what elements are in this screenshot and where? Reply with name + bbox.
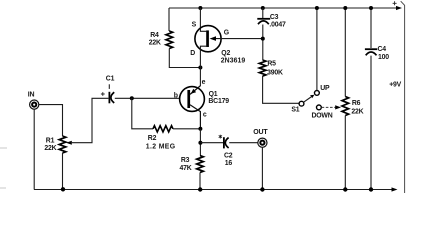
wire R2 to collector line (173, 128, 200, 130)
svg-text:2N3619: 2N3619 (221, 58, 246, 65)
capacitor C1 (101, 76, 115, 104)
svg-text:IN: IN (28, 92, 35, 99)
wire R6 line from top rail (344, 8, 346, 97)
svg-text:Q1: Q1 (209, 91, 218, 98)
wire UP contact to top rail (316, 8, 318, 91)
wire C1 to Q1 base (115, 97, 180, 99)
svg-text:e: e (202, 79, 206, 86)
svg-text:C4: C4 (378, 46, 387, 53)
node C4/bottom rail junction (369, 187, 373, 191)
transistor Q2 (JFET 2N3619) (190, 21, 263, 67)
svg-text:R6: R6 (352, 100, 361, 107)
wire C2 tap to capacitor (200, 142, 223, 144)
svg-text:C2: C2 (224, 153, 233, 160)
wire R1 wiper to C1 (66, 98, 108, 144)
node R4/drain junction (198, 66, 202, 70)
svg-text:+9V: +9V (389, 82, 401, 89)
node C3 junction on top rail (261, 6, 265, 10)
svg-text:1.2 MEG: 1.2 MEG (146, 143, 176, 150)
svg-text:G: G (224, 30, 229, 37)
resistor R4 (149, 31, 173, 49)
svg-text:DOWN: DOWN (312, 112, 333, 119)
node +9V top plus (393, 1, 397, 5)
svg-text:390K: 390K (267, 70, 283, 77)
svg-text:R3: R3 (181, 157, 190, 164)
svg-text:BC179: BC179 (208, 98, 229, 105)
svg-text:100: 100 (378, 54, 389, 61)
node R2/collector junction (198, 127, 202, 131)
svg-text:OUT: OUT (253, 129, 268, 136)
node C4/top rail junction (369, 6, 373, 10)
resistor R5 (259, 60, 283, 77)
svg-text:R5: R5 (267, 61, 276, 68)
wire IN to R1 top (39, 105, 63, 136)
wire bottom rail (34, 187, 398, 191)
svg-text:22K: 22K (351, 109, 363, 116)
node R3/rail junction (198, 187, 202, 191)
svg-text:R4: R4 (150, 32, 159, 39)
node C2 tap junction (198, 141, 202, 145)
wire IN to ground rail (33, 109, 35, 189)
wire C2 to OUT (229, 142, 257, 144)
wire rail to C3 (262, 8, 264, 18)
resistor R3 (180, 156, 204, 173)
wire C4 line from top rail (370, 8, 372, 48)
wire R1 bottom to rail (62, 153, 64, 190)
node R6/top rail junction (343, 6, 347, 10)
svg-text:S1: S1 (291, 107, 299, 114)
svg-text:Q2: Q2 (221, 50, 230, 57)
wire collector line down (199, 129, 201, 156)
wire top rail to Q2 source (200, 8, 206, 31)
resistor R1 (44, 136, 65, 153)
wire top rail corner to R4 (168, 8, 170, 31)
resistor R6 (342, 97, 364, 116)
svg-text:22K: 22K (44, 145, 56, 152)
wire R3 to rail (199, 173, 201, 190)
wire scan speck bottom left (0, 148, 7, 188)
node R1/rail junction (61, 187, 65, 191)
svg-text:.0047: .0047 (269, 22, 286, 29)
svg-text:D: D (190, 50, 195, 57)
transistor Q1 (BC179) (174, 79, 229, 129)
wire R5 to switch common (263, 76, 299, 103)
capacitor C4 (365, 46, 389, 61)
svg-text:S: S (192, 21, 197, 28)
svg-text:b: b (174, 92, 178, 99)
wire C3 to gate node (262, 25, 264, 61)
wire Q2 drain down to Q1 emitter (199, 68, 201, 87)
wire DOWN contact to R6 wiper (322, 105, 341, 109)
terminal OUT (253, 129, 268, 147)
node OUT/rail junction (260, 187, 264, 191)
svg-text:22K: 22K (149, 40, 161, 47)
svg-text:c: c (203, 112, 207, 119)
wire R4 bottom to drain line (169, 49, 200, 68)
wire R6 to bottom rail (344, 116, 346, 190)
node R6/bottom rail junction (343, 187, 347, 191)
capacitor C2 (219, 135, 233, 168)
svg-text:16: 16 (225, 160, 233, 167)
svg-text:R2: R2 (148, 135, 157, 142)
node gate junction (261, 37, 265, 41)
node C1/R2 junction (130, 96, 134, 100)
capacitor C3 (257, 14, 286, 29)
svg-text:47K: 47K (180, 165, 192, 172)
svg-text:C3: C3 (270, 14, 279, 21)
node +9V label (389, 82, 401, 89)
wire OUT to rail (261, 147, 263, 189)
wire +9V right vertical (401, 1, 405, 193)
wire top rail (169, 6, 402, 10)
svg-text:UP: UP (320, 85, 330, 92)
resistor R2 (146, 126, 176, 151)
node source junction on top rail (198, 6, 202, 10)
svg-text:C1: C1 (106, 76, 115, 83)
wire junction down to R2 (132, 98, 153, 129)
node UP/rail junction (315, 6, 319, 10)
terminal IN (28, 92, 39, 110)
wire C4 to bottom rail (370, 56, 372, 190)
svg-text:R1: R1 (46, 137, 55, 144)
switch S1 (291, 85, 332, 120)
